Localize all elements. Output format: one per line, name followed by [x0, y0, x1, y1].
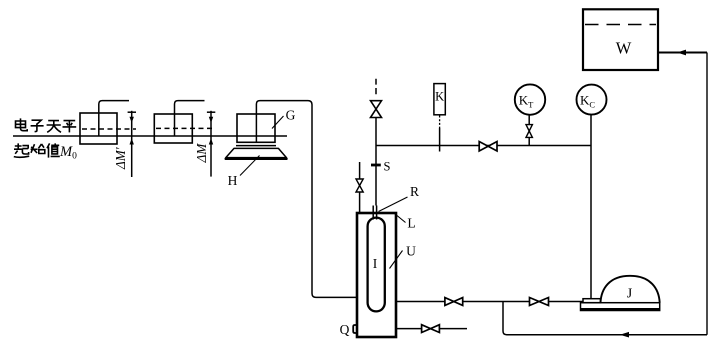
G hanger wire to vessel	[256, 101, 357, 298]
balance box 2	[154, 114, 192, 143]
box 1 hanger wire	[99, 101, 129, 136]
天	[47, 121, 61, 133]
svg-text:K: K	[435, 90, 444, 104]
pump inlet flange	[583, 299, 601, 303]
KC stem down to pump	[590, 115, 592, 299]
K probe lead	[439, 116, 441, 129]
left tube into vessel	[359, 162, 361, 213]
svg-text:M0: M0	[59, 144, 77, 162]
L leader line	[395, 214, 406, 223]
W level dashed line	[585, 24, 656, 26]
svg-text:U: U	[406, 244, 416, 259]
box 1 dashed centerline	[82, 128, 136, 130]
drain valve V4	[422, 325, 440, 333]
inner tube	[368, 218, 385, 312]
fill line top dashes	[375, 79, 377, 95]
H leader line	[240, 156, 260, 176]
KT valve	[526, 125, 532, 138]
svg-text:H: H	[228, 173, 238, 188]
return line arrow	[620, 332, 629, 338]
svg-text:G: G	[286, 108, 296, 123]
junction drop to return line	[503, 302, 707, 335]
值	[47, 143, 60, 157]
U leader line	[390, 251, 403, 269]
box 2 hanger wire	[175, 101, 205, 136]
vessel outlet line	[396, 301, 583, 303]
right return riser	[706, 53, 708, 335]
neck at vessel top	[373, 206, 376, 220]
W outlet arrow	[677, 50, 686, 56]
R leader line	[379, 197, 408, 212]
fill line	[375, 118, 377, 206]
gauge KC	[577, 85, 607, 115]
box 2 dashed centerline	[156, 127, 215, 129]
平	[63, 121, 77, 133]
tank W	[583, 9, 658, 70]
KT stem	[528, 115, 530, 125]
outlet valve V2	[445, 298, 463, 306]
svg-text:L: L	[407, 216, 415, 231]
子	[31, 120, 44, 131]
vessel sampling notch Q	[353, 325, 357, 333]
G leader line	[272, 116, 284, 129]
label 起始值M0 (hand-drawn strokes + italic M0)	[14, 143, 60, 157]
svg-text:KC: KC	[580, 93, 595, 110]
sample box G	[237, 114, 275, 142]
pipe valve V1	[479, 142, 497, 152]
dimension arrow dM	[207, 111, 215, 177]
fill valve (vertical bowtie)	[371, 101, 382, 118]
svg-text:S: S	[384, 160, 391, 174]
始	[31, 144, 45, 154]
left tube valve	[356, 179, 363, 192]
label 电子天平 (hand-drawn strokes)	[16, 118, 77, 132]
balance beam main line	[13, 135, 287, 137]
vessel outer jacket	[357, 213, 396, 337]
gas pipe manifold	[376, 145, 591, 147]
svg-text:I: I	[373, 256, 378, 271]
svg-text:ΔM′: ΔM′	[113, 146, 128, 170]
svg-text:W: W	[616, 39, 632, 58]
dimension arrow dM'	[128, 111, 136, 177]
pump J dome	[601, 276, 660, 303]
svg-text:R: R	[410, 184, 419, 199]
funnel stand H	[226, 146, 287, 159]
vessel drain line	[396, 328, 467, 330]
svg-text:Q: Q	[340, 322, 350, 337]
起	[14, 143, 29, 157]
电	[16, 118, 28, 130]
pump base plate	[581, 303, 660, 311]
pump base thick bottom	[581, 308, 660, 311]
svg-text:J: J	[627, 287, 633, 302]
svg-text:KT: KT	[519, 93, 534, 110]
svg-text:ΔM: ΔM	[194, 143, 209, 164]
W outlet line	[658, 52, 707, 54]
outlet valve V3	[530, 298, 549, 306]
S mark	[371, 164, 381, 167]
sensor K box	[434, 84, 445, 115]
balance box 1	[80, 113, 117, 144]
gauge KT	[515, 84, 545, 114]
